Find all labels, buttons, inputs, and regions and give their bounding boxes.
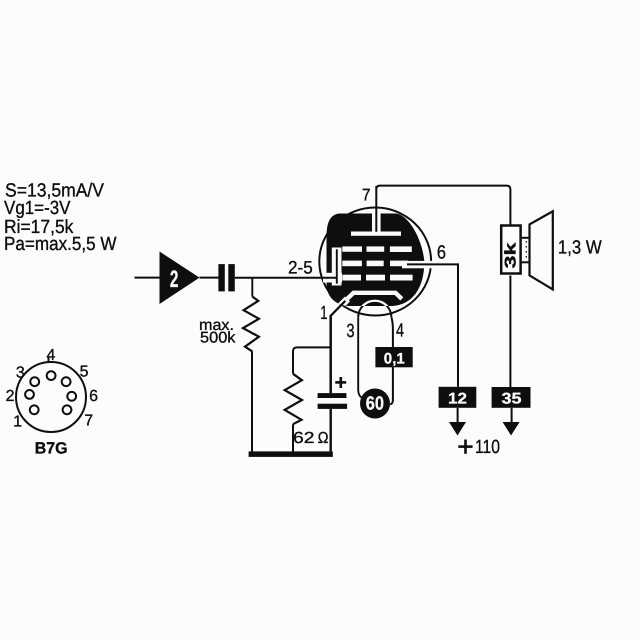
capacitor box 0,1 (375, 347, 412, 367)
svg-text:60: 60 (366, 393, 384, 414)
speaker stubs (522, 237, 530, 239)
svg-text:110: 110 (475, 437, 500, 458)
svg-text:2: 2 (170, 266, 179, 293)
svg-text:4: 4 (47, 347, 56, 364)
resistor R1 max.500k zigzag (243, 297, 259, 352)
screen pin6 wire (407, 264, 458, 386)
svg-text:3: 3 (346, 321, 354, 342)
svg-text:6: 6 (89, 388, 98, 405)
anode lead 7 (375, 186, 377, 232)
grid wire from capacitor to tube (235, 277, 338, 279)
tube V1 envelope circle (319, 208, 431, 316)
svg-text:1: 1 (13, 413, 22, 430)
heater pin3 wire (358, 317, 361, 397)
wire triangle to capacitor (200, 277, 219, 279)
svg-text:2-5: 2-5 (288, 257, 313, 277)
cathode chevron (white) (345, 293, 402, 301)
svg-text:35: 35 (502, 391, 522, 408)
B7G socket outline (16, 358, 86, 433)
grid connector white channel (332, 248, 342, 286)
svg-text:1: 1 (320, 303, 327, 324)
electrolytic capacitor C2 plates (318, 393, 347, 398)
svg-text:62: 62 (293, 430, 315, 447)
grid connector line (336, 249, 338, 283)
grid row 3 dashes (342, 275, 361, 281)
R1 lower lead (251, 351, 253, 452)
tube V1 dark electrode blob (327, 214, 425, 307)
svg-text:7: 7 (362, 185, 371, 204)
grid row 1 dashes (342, 246, 362, 251)
arrow below 35 (511, 408, 513, 423)
svg-text:Ω: Ω (318, 430, 329, 447)
pin1 lead white halo in blob (332, 299, 348, 315)
svg-text:3k: 3k (503, 242, 520, 269)
label +110 (458, 445, 472, 448)
speaker horn (530, 211, 553, 289)
svg-text:B7G: B7G (35, 439, 68, 457)
svg-text:3: 3 (16, 365, 25, 382)
svg-text:6: 6 (437, 243, 446, 264)
svg-text:500k: 500k (200, 330, 236, 347)
box 12 (439, 387, 477, 408)
junction to grid resistor (251, 278, 253, 297)
ground bus thick wire (249, 451, 333, 457)
grid entry white channel (323, 273, 342, 283)
input wire (135, 277, 161, 279)
svg-text:4: 4 (396, 321, 404, 342)
svg-text:5: 5 (80, 364, 89, 381)
C2 lower lead (330, 409, 332, 452)
plus sign (335, 381, 346, 384)
svg-text:12: 12 (448, 391, 467, 408)
pin1 lead diagonal (331, 301, 346, 316)
svg-text:1,3 W: 1,3 W (558, 237, 602, 258)
svg-text:Vg1=-3V: Vg1=-3V (4, 198, 71, 219)
heater arc white over blob (358, 301, 391, 318)
R2 lower lead (292, 424, 294, 452)
arrow below 12 (457, 408, 459, 423)
svg-text:7: 7 (84, 412, 93, 429)
anode plate (white bar) (351, 232, 401, 236)
wire cathode to 62ohm resistor (293, 347, 331, 373)
svg-text:2: 2 (6, 388, 15, 405)
circle 60 (360, 389, 390, 419)
box 35 (492, 387, 531, 408)
pin6 lead white channel (402, 261, 434, 268)
svg-text:Pa=max.5,5 W: Pa=max.5,5 W (4, 234, 117, 255)
input triangle with 2 (160, 252, 200, 305)
transformer core dashes (525, 241, 527, 260)
coupling capacitor C1 (218, 264, 224, 291)
grid row 2 dashes (342, 261, 362, 267)
cathode lead from pin1 (329, 315, 332, 393)
wire below transformer (509, 276, 511, 388)
anode lead white channel (372, 211, 381, 232)
transformer 3k box (501, 226, 520, 274)
svg-text:0,1: 0,1 (384, 350, 405, 367)
heater pin4 wire (390, 317, 393, 404)
anode top wire to transformer (376, 186, 510, 225)
resistor R2 62ohm zigzag (285, 374, 302, 424)
heater arc black (358, 301, 391, 318)
